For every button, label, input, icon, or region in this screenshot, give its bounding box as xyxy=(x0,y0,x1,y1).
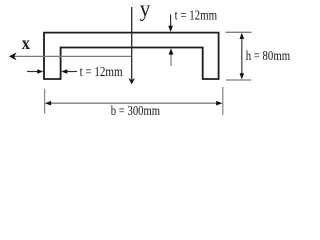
b dim arrowhead left xyxy=(45,101,51,106)
top t arrow (down) xyxy=(170,15,172,28)
svg-text:x: x xyxy=(22,33,30,53)
b dim arrowhead right xyxy=(216,101,222,106)
h dim bottom tick xyxy=(226,79,251,81)
left t arrow pointing right xyxy=(27,71,39,73)
svg-text:b = 300mm: b = 300mm xyxy=(111,104,160,119)
h dim arrowhead up xyxy=(240,33,245,39)
channel section outline xyxy=(44,33,219,79)
x axis arrowhead xyxy=(9,52,17,60)
h dim line xyxy=(241,34,243,78)
b dim line xyxy=(47,102,221,104)
b dim right extension line xyxy=(222,87,224,115)
left t arrow pointing left xyxy=(66,71,77,73)
svg-text:y: y xyxy=(140,0,151,22)
svg-text:t = 12mm: t = 12mm xyxy=(80,65,123,80)
b dim left extension line xyxy=(44,89,46,114)
h dim arrowhead down xyxy=(240,73,245,79)
y axis line xyxy=(131,7,133,80)
svg-text:h = 80mm: h = 80mm xyxy=(246,49,290,64)
h dim top tick xyxy=(226,31,252,33)
x axis line xyxy=(13,55,132,57)
y axis arrowhead (down) xyxy=(128,78,135,84)
svg-text:t = 12mm: t = 12mm xyxy=(175,9,218,24)
flange inner t arrow (up) xyxy=(170,54,172,67)
